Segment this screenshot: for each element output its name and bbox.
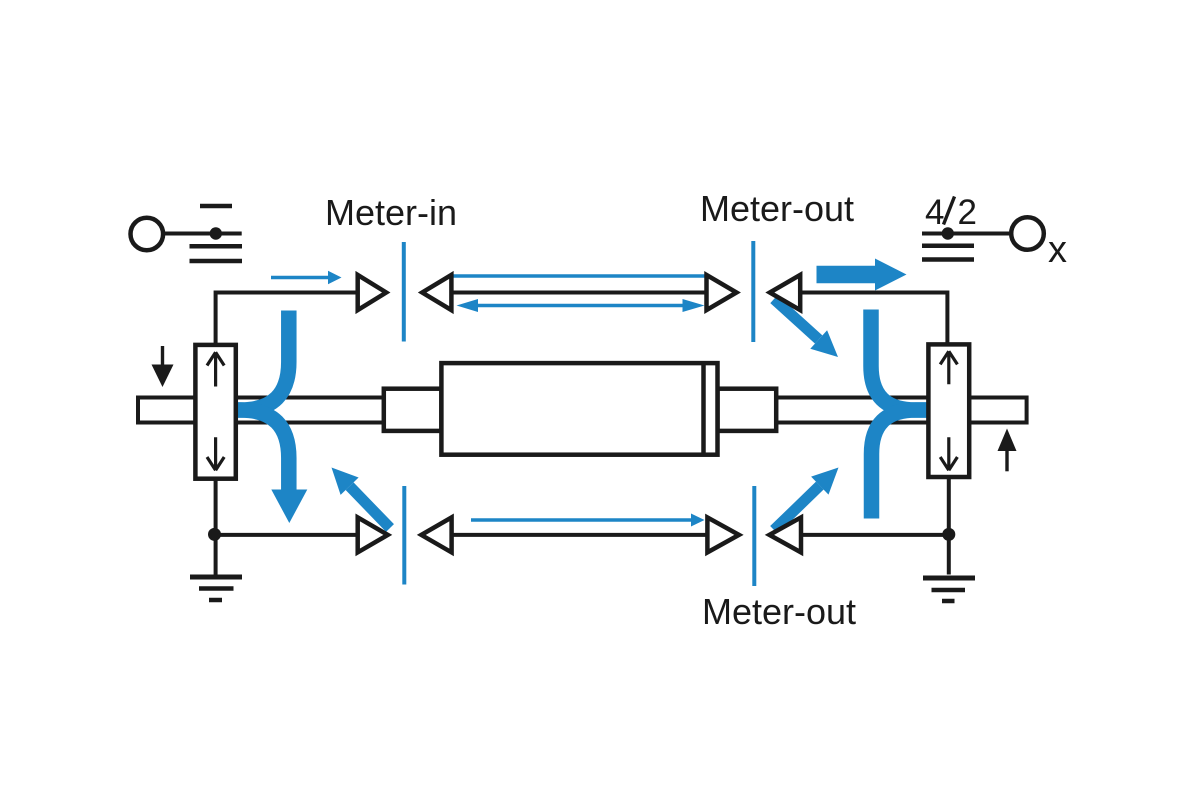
blue line top between throttles bbox=[452, 274, 710, 277]
junction dot bottom left bbox=[208, 528, 221, 541]
check triangle bottom-right left-pointing bbox=[769, 517, 801, 552]
throttle blue bar bottom-left bbox=[402, 486, 406, 585]
pilot wire right bbox=[922, 232, 1011, 236]
pilot circle left bbox=[131, 218, 164, 251]
cylinder right gland block bbox=[718, 389, 777, 431]
thick blue arrow right (pump flow) bbox=[817, 259, 907, 291]
wire bottom middle bbox=[452, 533, 708, 537]
thick blue flow left junction bottom elbow bbox=[238, 410, 289, 492]
wire top middle bbox=[451, 291, 706, 295]
tank symbol right line 3 bbox=[922, 257, 974, 262]
check triangle top-right right-pointing bbox=[707, 275, 737, 310]
force arrow up right bbox=[998, 429, 1017, 472]
wire bottom right bbox=[801, 533, 949, 537]
ground left line 2 bbox=[199, 586, 234, 591]
throttle blue bar bottom-right bbox=[752, 486, 756, 586]
rod line left thin bbox=[236, 398, 384, 423]
ground right line 1 bbox=[923, 576, 975, 581]
flow valve left up arrow bbox=[207, 352, 224, 386]
svg-text:Meter-out: Meter-out bbox=[702, 591, 856, 632]
ground left line 1 bbox=[190, 575, 242, 580]
junction dot left pilot bbox=[210, 227, 222, 239]
thick blue diagonal arrow bottom-left bbox=[332, 468, 391, 529]
svg-text:2: 2 bbox=[958, 193, 977, 232]
wire left valve bottom stem bbox=[214, 479, 218, 575]
blue flow arrow short top-left bbox=[271, 271, 342, 284]
thick blue flow right junction bottom elbow bbox=[872, 410, 928, 519]
thick blue diagonal arrow bottom-right bbox=[774, 468, 839, 531]
ground right line 3 bbox=[942, 599, 955, 604]
junction dot right pilot bbox=[942, 227, 954, 239]
flow valve right up arrow bbox=[940, 351, 957, 384]
ground left line 3 bbox=[209, 598, 222, 603]
svg-text:4: 4 bbox=[925, 193, 944, 232]
blue double arrow top bbox=[457, 299, 705, 312]
cylinder piston line bbox=[701, 363, 706, 455]
wire bottom left bbox=[215, 533, 358, 537]
check triangle bottom-left left-pointing bbox=[421, 517, 451, 552]
thick blue down arrowhead left bbox=[271, 490, 307, 524]
junction dot bottom right bbox=[942, 528, 955, 541]
svg-text:Meter-out: Meter-out bbox=[700, 188, 854, 229]
flow valve left bbox=[195, 345, 235, 479]
wire right valve top riser bbox=[800, 293, 947, 345]
blue single arrow bottom middle bbox=[471, 514, 705, 527]
flow valve right down arrow bbox=[940, 437, 957, 470]
rod end cap right bbox=[969, 398, 1026, 423]
tank symbol left line 3 bbox=[190, 259, 243, 264]
svg-text:Meter-in: Meter-in bbox=[325, 192, 457, 233]
rod line right thin bbox=[776, 398, 928, 423]
check triangle bottom-left right-pointing bbox=[358, 517, 388, 552]
cylinder left gland block bbox=[384, 389, 442, 431]
wire left valve top riser bbox=[216, 293, 358, 345]
thick blue flow left junction top elbow bbox=[238, 311, 289, 411]
ground right line 2 bbox=[932, 588, 966, 593]
wire right valve bottom stem bbox=[947, 477, 951, 575]
rod end cap left bbox=[138, 398, 195, 423]
throttle blue bar top-left bbox=[402, 242, 406, 342]
flow valve right bbox=[928, 344, 969, 477]
force arrow down left bbox=[152, 346, 174, 387]
thick blue diagonal arrow top-right bbox=[774, 299, 838, 357]
check triangle top-left left-pointing bbox=[422, 275, 451, 310]
check triangle top-right left-pointing bbox=[770, 275, 800, 310]
svg-text:x: x bbox=[1048, 229, 1067, 271]
flow valve left down arrow bbox=[207, 437, 224, 470]
check triangle top-left right-pointing bbox=[358, 275, 387, 310]
pilot circle right bbox=[1011, 217, 1044, 250]
pilot wire left bbox=[163, 232, 242, 236]
thick blue flow right junction top elbow bbox=[871, 310, 928, 411]
throttle blue bar top-right bbox=[751, 241, 755, 342]
cylinder body bbox=[441, 363, 717, 455]
tank symbol right line 2 bbox=[922, 244, 974, 249]
tank symbol left line short bbox=[200, 204, 232, 209]
tank symbol left line 2 bbox=[190, 244, 243, 249]
check triangle bottom-right right-pointing bbox=[707, 517, 739, 552]
